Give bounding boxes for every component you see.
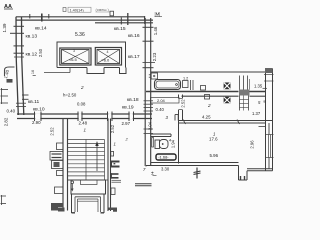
svg-text:кв.10: кв.10 [33,107,45,113]
entrance door leaf with 2.04 [151,98,180,104]
svg-text:1.40(14): 1.40(14) [70,8,85,12]
svg-text:1.94: 1.94 [171,139,176,148]
toilet [152,138,168,149]
svg-text:h=2.50: h=2.50 [63,93,77,98]
svg-text:-1.68-: -1.68- [158,155,169,160]
loggia labels 5 / 1.37 [252,100,266,117]
svg-text:2.52: 2.52 [180,99,185,108]
svg-text:4.25: 4.25 [202,115,211,120]
svg-text:1.35: 1.35 [254,84,263,89]
small rotated 16 mark [31,70,36,76]
sink left in bathroom [149,73,158,79]
svg-text:в: в [264,100,266,104]
svg-text:0.40: 0.40 [7,108,16,113]
hall 3 labels [156,98,169,120]
window ticks on left wall [10,26,26,106]
svg-text:4: 4 [107,50,109,54]
living room top wall [179,121,273,124]
svg-text:|М|: |М| [155,12,161,17]
svg-text:5.36: 5.36 [75,32,85,38]
door openings (white gaps) on bottom wall [35,113,133,119]
svg-text:1.46: 1.46 [153,26,158,35]
svg-text:2.52: 2.52 [50,127,55,136]
door marks right of stair right wall [109,152,122,212]
svg-text:16: 16 [31,70,35,74]
label 1.40(14) boxed [63,7,91,12]
stair landing [68,180,109,194]
svg-text:1.37: 1.37 [252,111,261,116]
svg-text:1: 1 [114,142,116,147]
left edge mark bottom [1,195,7,205]
elevator enclosure [57,42,126,74]
svg-text:2.23: 2.23 [152,52,157,61]
svg-text:3.30: 3.30 [161,167,170,172]
svg-text:2.97: 2.97 [122,121,131,126]
svg-text:кв.19: кв.19 [122,105,134,111]
vent box on wall [201,86,206,91]
stair up arrow [95,141,98,171]
door jamb hall3 [175,115,178,121]
tick for dimension 1.35 [263,87,268,89]
svg-text:кв.15: кв.15 [114,26,126,32]
svg-text:кв.16: кв.16 [128,33,140,39]
staircase treads [68,140,105,181]
hall3 / WC column left wall shared with living [179,95,183,164]
left edge section cut marks [1,88,9,104]
door boxes left of stair wall [50,143,63,211]
svg-text:2.50: 2.50 [38,48,43,57]
washbasin + label 1.2 [183,77,194,91]
bottom annotations: 7, ±, 3.30, + mark [143,167,170,178]
vent shaft X boxes [224,83,230,103]
svg-text:0.40: 0.40 [156,107,165,112]
svg-text:кв.11: кв.11 [28,99,39,105]
svg-text:2.96: 2.96 [249,140,254,149]
dimension line 5.36 along corridor [44,68,70,73]
wall hall/kitchen horizontal [146,92,266,97]
svg-text:кв.17: кв.17 [128,54,140,60]
svg-text:1.39: 1.39 [2,23,7,32]
elevator shaft 2 [95,48,121,66]
dimension ticks 4.25 [183,120,240,125]
window ticks on WC left wall [144,101,154,134]
section mark AA top-left [4,4,13,10]
ticks on right wall [143,27,156,67]
hall right wall below corridor [145,166,147,169]
wall: corridor left (double, slight scan lean) [16,17,24,115]
vent box under wall kitchen [205,95,210,100]
vent box on top wall [110,11,114,16]
svg-text:2: 2 [207,103,211,108]
stub wall SW corridor corner [22,95,29,99]
svg-text:2.52: 2.52 [110,124,115,133]
svg-text:0.08: 0.08 [77,102,86,107]
svg-text:3: 3 [73,49,75,53]
stair section right wall [108,119,111,212]
living room bottom wall [146,163,239,166]
entrance porch nested [72,194,105,213]
partition hall3 / WC [151,134,172,137]
svg-text:2.90: 2.90 [32,120,41,125]
svg-text:1.2: 1.2 [183,77,188,81]
wall: corridor bottom (double) [17,114,152,119]
short wall segment below hall [135,184,152,186]
svg-text:≈6.0: ≈6.0 [102,58,111,63]
svg-text:кв.18: кв.18 [127,97,139,103]
right outer wall [259,68,274,171]
wall: corridor top [16,17,153,23]
label (M) [155,12,163,17]
apartment labels corridor [26,26,140,113]
kitchen top label strip: room 2 [202,103,211,120]
hatched shaft box outside left wall with 1.40 [3,67,14,83]
partition ladder x 238-249 [239,76,250,111]
corridor room label 2 / h=2.50 / 0.08 [63,85,86,107]
window ticks on top wall [30,13,145,25]
living room labels [209,132,219,159]
svg-text:кв.14: кв.14 [35,26,47,32]
svg-text:кв.12: кв.12 [26,52,38,58]
svg-text:2.82: 2.82 [4,117,9,126]
stair section left wall [58,119,68,212]
svg-text:2.48: 2.48 [79,120,88,125]
door ticks on bottom wall [35,112,134,122]
svg-text:≈6.5: ≈6.5 [69,57,78,62]
elevator shaft 1 [60,48,91,65]
appliance box 1.68 [156,154,176,160]
svg-text:(смеш.): (смеш.) [96,8,110,12]
stair down arrow (circle tail) [71,181,74,192]
svg-text:±: ± [151,171,154,177]
svg-text:5.96: 5.96 [210,153,219,158]
svg-text:2: 2 [80,85,84,90]
wall: corridor right (double) [145,18,151,166]
svg-text:17.6: 17.6 [209,137,218,142]
bathtub [155,80,181,90]
svg-text:кв.13: кв.13 [26,34,38,40]
bottom pillar niche [239,166,273,181]
svg-text:2.04: 2.04 [157,98,166,103]
label (smesh) smudged [96,8,110,12]
bathroom top wall [151,71,266,73]
